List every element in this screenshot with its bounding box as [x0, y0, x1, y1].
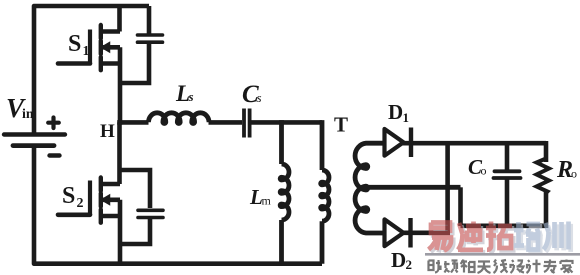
svg-text:in: in [22, 107, 34, 122]
wire bottom output rail [461, 224, 547, 229]
wire S2 cap bottom jog [120, 219, 150, 244]
char 培 [514, 222, 541, 250]
wire Ro bottom lead [544, 192, 549, 228]
capacitor Co plates [494, 171, 521, 178]
wire S1 drain vertical [117, 6, 122, 32]
S1 source stub [101, 61, 120, 66]
专 [544, 260, 557, 274]
char 拓 [486, 222, 512, 250]
wire H rail between Ls and Cs [209, 120, 243, 125]
battery short plate (-) [13, 143, 54, 148]
svg-text:2: 2 [77, 196, 84, 211]
svg-text:o: o [481, 164, 487, 178]
svg-text:o: o [571, 167, 577, 181]
wire S2 source vertical to bottom rail [118, 200, 123, 264]
wire S2 cap top jog [120, 170, 151, 208]
svg-text:S: S [68, 31, 81, 57]
S2 drain stub [101, 182, 120, 187]
wire H rail from Cs to transformer corner [252, 120, 323, 125]
wire S1 cap bottom jog [120, 44, 149, 83]
S2 middle stub with body arrow [101, 198, 120, 203]
S2 gate lead [58, 213, 90, 218]
S1 middle stub with body arrow [101, 45, 120, 50]
svg-text:S: S [62, 183, 75, 209]
inductor L Ls [149, 113, 210, 124]
svg-text:s: s [257, 90, 262, 105]
transformer T primary winding [321, 120, 329, 264]
S1 gate lead [58, 61, 90, 66]
capacitor across S1 [138, 6, 163, 42]
char 迪 [458, 222, 483, 250]
wire left vertical (- side) and bottom rail [34, 148, 322, 264]
svg-text:D: D [391, 248, 406, 272]
svg-text:T: T [334, 113, 348, 137]
wire Co top lead [505, 143, 510, 170]
watermark tagline 射频和天线设计专家 (vector strokes) [429, 260, 573, 274]
resistor Ro zigzag [537, 159, 550, 194]
svg-text:2: 2 [406, 257, 413, 272]
和 [461, 260, 475, 273]
transformer T secondary winding [355, 143, 460, 233]
S1 drain stub [101, 29, 120, 34]
svg-text:D: D [388, 100, 403, 124]
svg-text:1: 1 [83, 44, 90, 59]
wire top output rail (through D1) [384, 141, 546, 146]
射 [429, 260, 441, 273]
diode D2 [385, 218, 411, 248]
wire top rail and left vertical (+ side) [34, 6, 149, 133]
capacitor Cs plates [244, 109, 250, 138]
wire D2 cathode row (through D2) [384, 231, 450, 236]
diode D1 [385, 128, 412, 158]
watermark logo 易迪拓培训 (drawn as vector strokes) [429, 222, 571, 253]
家 [561, 260, 573, 274]
wire secondary center tap [366, 185, 461, 190]
svg-text:s: s [188, 89, 194, 104]
wire S1 source vertical down to node H [118, 47, 123, 124]
S2 source stub [101, 214, 120, 219]
transistor Q S1 [58, 25, 120, 70]
频 [444, 261, 458, 273]
char 易 [429, 223, 452, 251]
svg-text:1: 1 [403, 110, 410, 125]
plus sign [48, 118, 59, 129]
transistor Q S2 [58, 178, 120, 223]
天 [478, 262, 491, 274]
wire S2 drain vertical from H rail [117, 122, 122, 184]
svg-text:m: m [262, 194, 272, 208]
wire Ro top lead with corner [544, 141, 549, 162]
计 [527, 260, 541, 274]
battery long plate (+) [4, 132, 65, 136]
capacitor across S2 [138, 210, 163, 217]
watermark divider [425, 253, 580, 256]
svg-text:H: H [100, 121, 115, 142]
wire Co bottom lead [505, 180, 510, 226]
char 训 [544, 222, 569, 250]
设 [511, 260, 525, 273]
S2 gate bar [88, 181, 92, 216]
S1 gate bar [88, 30, 92, 64]
inductor L Lm [280, 120, 289, 264]
wire H rail left segment [117, 120, 148, 125]
minus sign [50, 153, 60, 157]
battery Vin [4, 118, 65, 156]
wire plus-rail vertical (D2 to top rail) [445, 143, 450, 233]
wire center-tap corner down [458, 187, 463, 226]
线 [494, 260, 508, 274]
